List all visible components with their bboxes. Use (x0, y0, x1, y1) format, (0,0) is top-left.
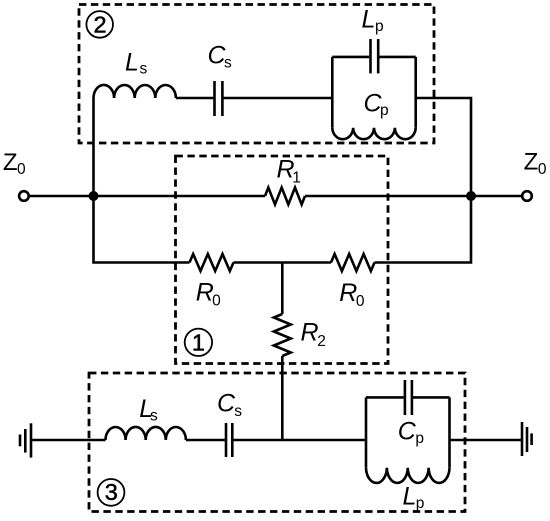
svg-text:2: 2 (317, 333, 326, 350)
svg-text:p: p (416, 495, 425, 512)
svg-text:C: C (217, 389, 236, 417)
svg-text:2: 2 (93, 12, 106, 38)
svg-text:1: 1 (192, 330, 205, 356)
svg-text:C: C (398, 418, 417, 446)
svg-text:s: s (140, 61, 148, 78)
svg-text:0: 0 (212, 292, 221, 309)
svg-text:L: L (362, 6, 376, 34)
svg-text:L: L (125, 49, 139, 77)
svg-text:Z: Z (3, 149, 18, 176)
svg-text:0: 0 (17, 161, 26, 178)
svg-text:s: s (150, 408, 158, 425)
svg-text:3: 3 (105, 479, 118, 505)
svg-text:0: 0 (356, 293, 365, 310)
svg-text:p: p (415, 430, 424, 447)
svg-text:R: R (301, 319, 319, 347)
svg-text:p: p (375, 18, 384, 35)
svg-text:s: s (234, 403, 242, 420)
svg-text:Z: Z (524, 149, 539, 176)
svg-text:s: s (224, 55, 232, 72)
svg-text:1: 1 (292, 169, 301, 186)
svg-text:R: R (339, 279, 357, 307)
svg-text:0: 0 (538, 161, 547, 178)
svg-text:L: L (403, 482, 417, 510)
svg-text:p: p (380, 102, 389, 119)
